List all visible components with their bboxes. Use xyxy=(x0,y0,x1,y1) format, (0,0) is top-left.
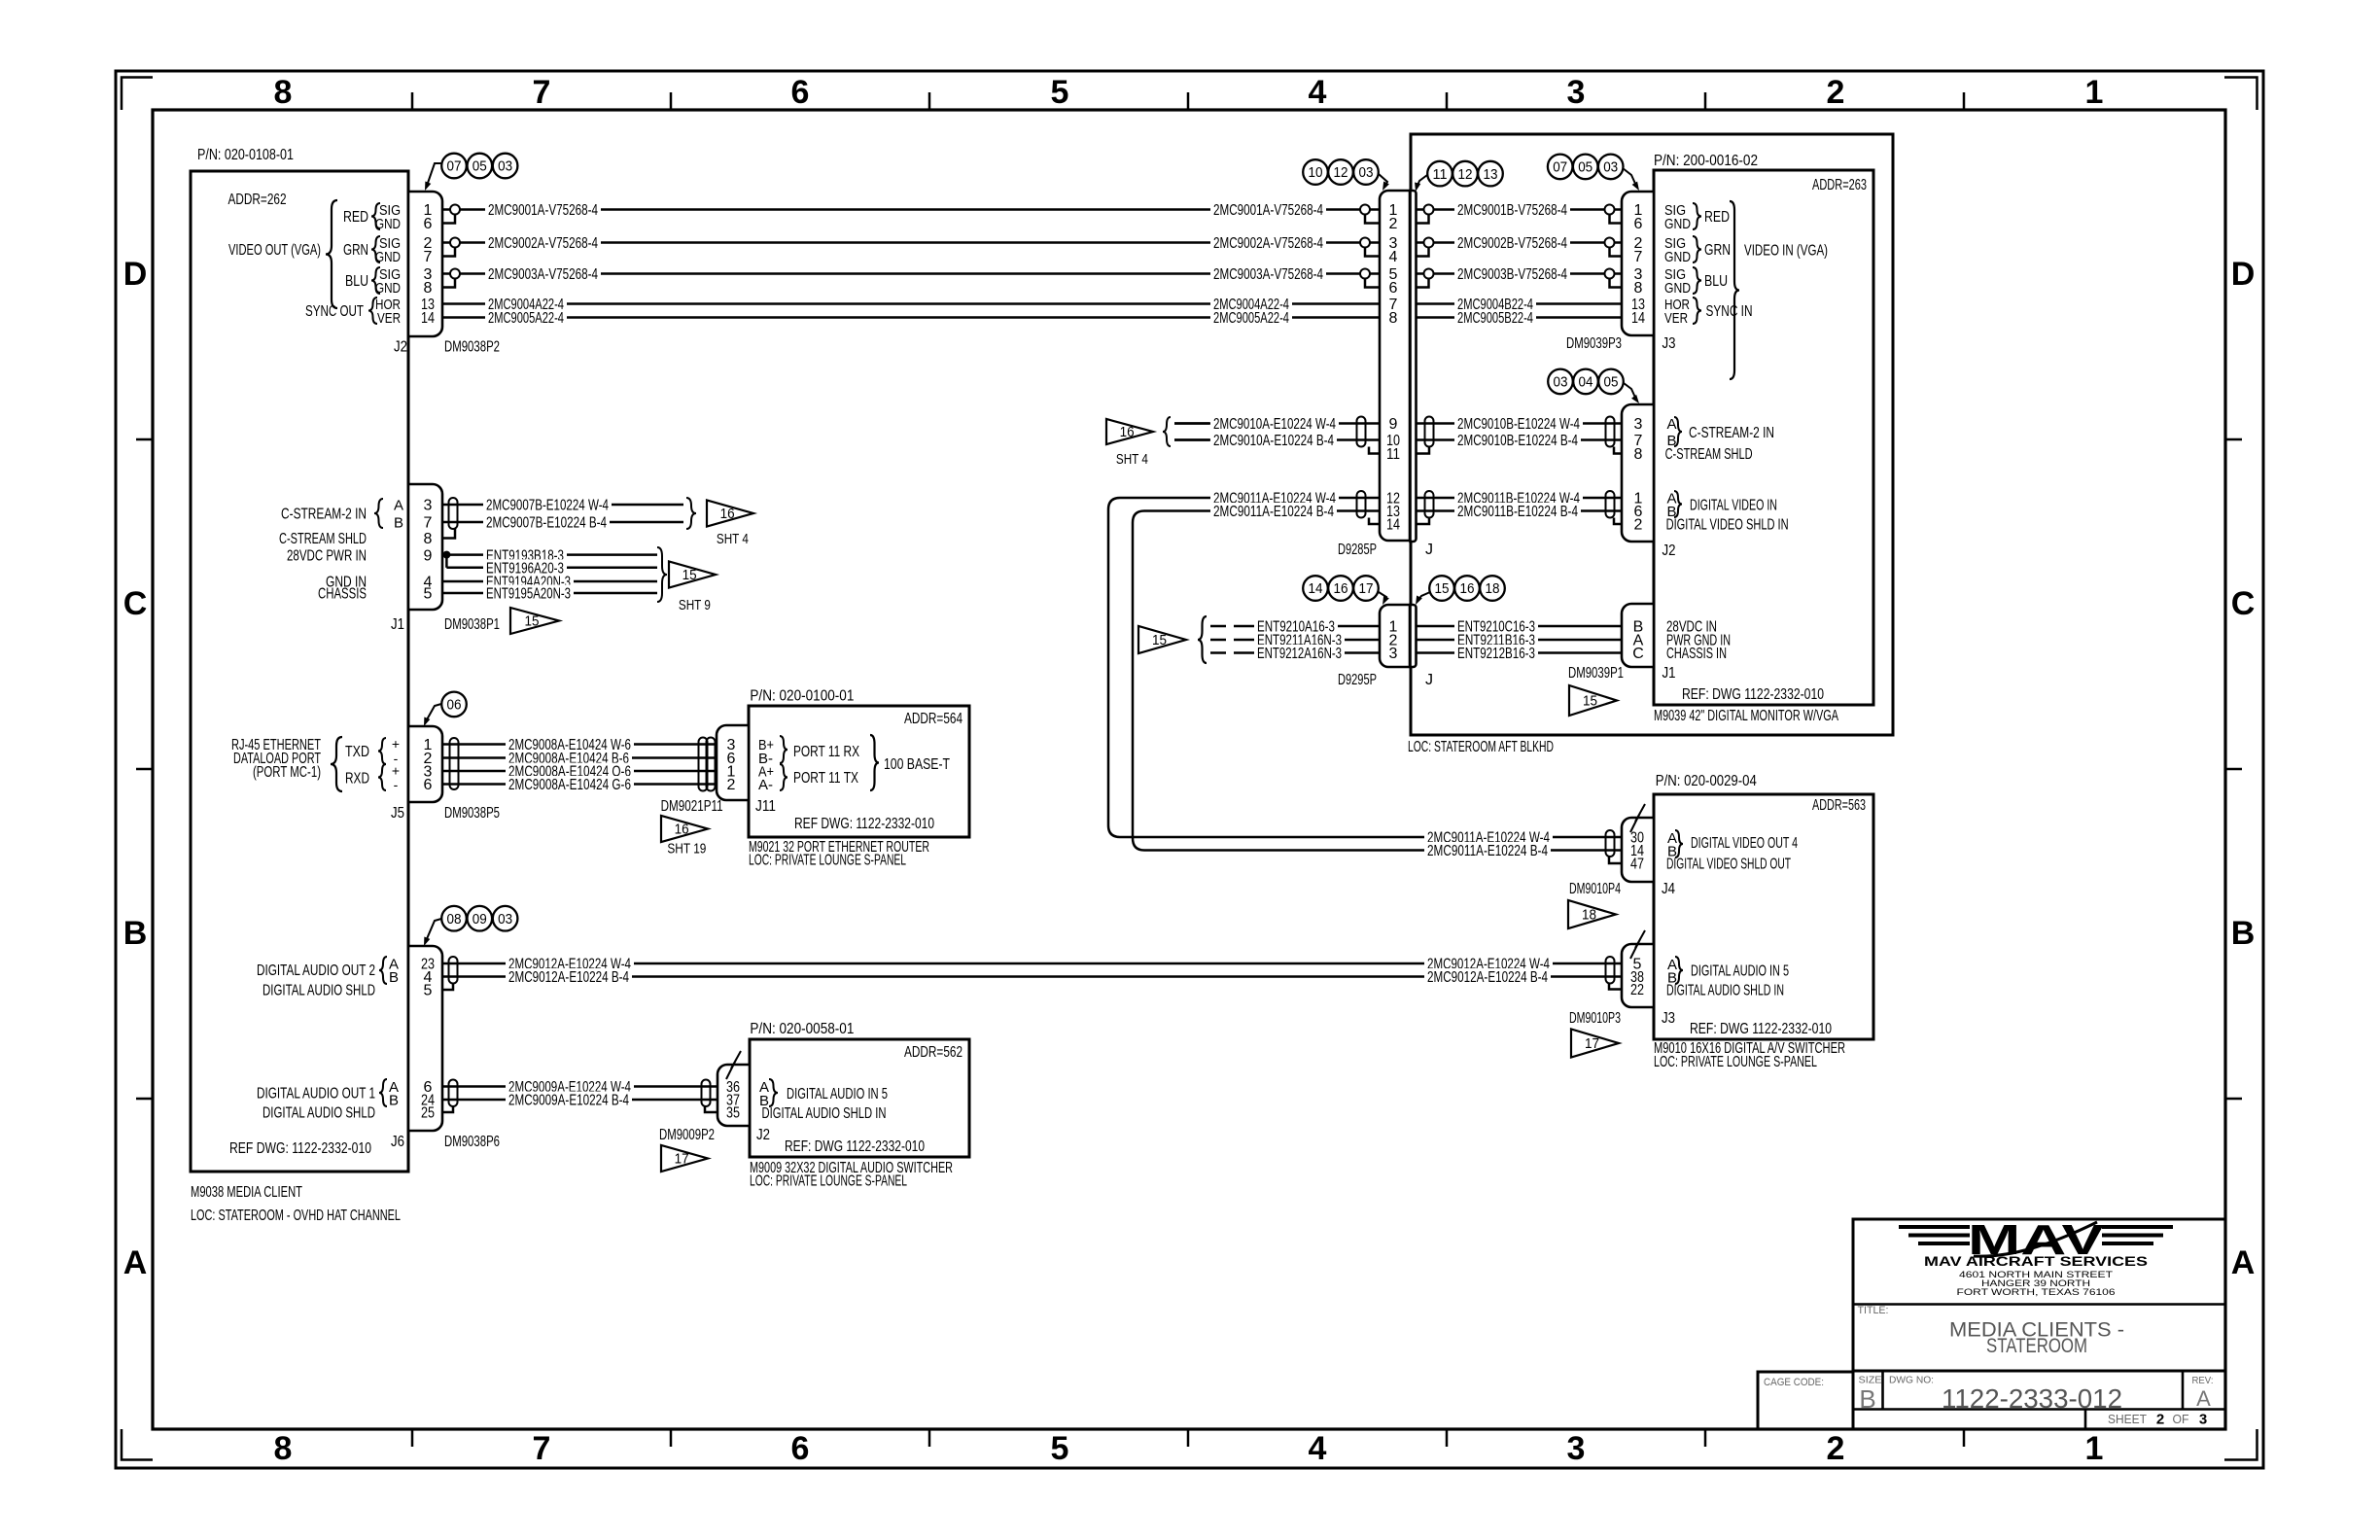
svg-text:J: J xyxy=(1425,542,1433,558)
svg-text:A: A xyxy=(2231,1244,2256,1281)
svg-text:ENT9212B16-3: ENT9212B16-3 xyxy=(1457,646,1535,662)
svg-text:C: C xyxy=(2231,585,2256,622)
svg-text:2MC9010A-E10224 W-4: 2MC9010A-E10224 W-4 xyxy=(1213,416,1336,433)
svg-text:14: 14 xyxy=(1309,581,1323,597)
svg-text:2MC9012A-E10224 B-4: 2MC9012A-E10224 B-4 xyxy=(1427,969,1548,986)
svg-text:J2: J2 xyxy=(1662,542,1676,559)
svg-text:M9038 MEDIA CLIENT: M9038 MEDIA CLIENT xyxy=(191,1184,302,1201)
svg-text:07: 07 xyxy=(447,159,462,175)
svg-text:28VDC PWR IN: 28VDC PWR IN xyxy=(287,547,367,564)
svg-text:DIGITAL VIDEO OUT 4: DIGITAL VIDEO OUT 4 xyxy=(1691,835,1798,852)
svg-text:A: A xyxy=(2196,1386,2211,1411)
svg-text:2MC9011A-E10224 B-4: 2MC9011A-E10224 B-4 xyxy=(1213,504,1334,520)
svg-text:6: 6 xyxy=(424,777,433,793)
svg-text:GND: GND xyxy=(375,280,401,297)
svg-text:VER: VER xyxy=(1664,310,1688,327)
svg-text:D9285P: D9285P xyxy=(1338,542,1377,558)
svg-text:04: 04 xyxy=(1579,375,1593,391)
svg-text:A: A xyxy=(394,498,403,514)
svg-text:7: 7 xyxy=(1634,249,1643,265)
svg-text:REF DWG: 1122-2332-010: REF DWG: 1122-2332-010 xyxy=(229,1140,371,1157)
svg-text:16: 16 xyxy=(1120,425,1135,440)
svg-text:RED: RED xyxy=(1704,209,1730,226)
svg-text:DIGITAL AUDIO SHLD IN: DIGITAL AUDIO SHLD IN xyxy=(1666,983,1784,999)
svg-text:2MC9012A-E10224 B-4: 2MC9012A-E10224 B-4 xyxy=(508,969,629,986)
svg-text:2: 2 xyxy=(1827,1430,1845,1467)
svg-text:14: 14 xyxy=(421,310,435,327)
svg-text:14: 14 xyxy=(1631,310,1645,327)
svg-text:PORT 11 RX: PORT 11 RX xyxy=(793,744,859,760)
svg-text:17: 17 xyxy=(1359,581,1374,597)
svg-text:CHASSIS: CHASSIS xyxy=(318,586,367,603)
svg-text:5: 5 xyxy=(424,586,433,603)
svg-text:DM9039P1: DM9039P1 xyxy=(1568,665,1624,682)
svg-text:4: 4 xyxy=(1389,249,1398,265)
svg-text:6: 6 xyxy=(1389,280,1398,297)
svg-text:15: 15 xyxy=(1152,633,1167,648)
svg-text:J4: J4 xyxy=(1662,881,1675,897)
svg-text:REF: DWG 1122-2332-010: REF: DWG 1122-2332-010 xyxy=(1682,686,1824,703)
svg-text:09: 09 xyxy=(472,912,487,927)
svg-text:P/N: 020-0058-01: P/N: 020-0058-01 xyxy=(750,1021,854,1037)
svg-text:4: 4 xyxy=(1309,74,1327,111)
svg-text:REV:: REV: xyxy=(2192,1375,2214,1386)
svg-text:7: 7 xyxy=(533,74,551,111)
svg-text:11: 11 xyxy=(1433,167,1448,183)
svg-text:J2: J2 xyxy=(756,1127,770,1143)
svg-text:16: 16 xyxy=(1334,581,1348,597)
svg-text:8: 8 xyxy=(1389,310,1398,327)
svg-text:DIGITAL VIDEO SHLD IN: DIGITAL VIDEO SHLD IN xyxy=(1666,517,1789,534)
svg-text:DIGITAL AUDIO SHLD IN: DIGITAL AUDIO SHLD IN xyxy=(762,1105,887,1122)
svg-text:3: 3 xyxy=(1567,1430,1586,1467)
svg-text:08: 08 xyxy=(447,912,462,927)
svg-text:2MC9011B-E10224 B-4: 2MC9011B-E10224 B-4 xyxy=(1457,504,1578,520)
svg-text:3: 3 xyxy=(1567,74,1586,111)
svg-text:3: 3 xyxy=(2199,1412,2207,1428)
svg-text:DM9009P2: DM9009P2 xyxy=(659,1127,715,1143)
svg-text:12: 12 xyxy=(1458,167,1473,183)
svg-text:15: 15 xyxy=(1435,581,1450,597)
svg-text:2: 2 xyxy=(1389,216,1398,232)
svg-text:STATEROOM: STATEROOM xyxy=(1986,1335,2087,1357)
svg-text:22: 22 xyxy=(1630,982,1644,998)
svg-text:REF DWG: 1122-2332-010: REF DWG: 1122-2332-010 xyxy=(794,816,934,832)
svg-text:RXD: RXD xyxy=(345,771,369,787)
svg-text:05: 05 xyxy=(1578,160,1592,176)
svg-text:D: D xyxy=(123,256,148,293)
svg-text:DM9038P2: DM9038P2 xyxy=(444,339,500,356)
svg-text:P/N: 020-0029-04: P/N: 020-0029-04 xyxy=(1656,773,1757,789)
svg-text:15: 15 xyxy=(682,568,697,583)
svg-text:C-STREAM-2 IN: C-STREAM-2 IN xyxy=(1689,425,1774,441)
svg-text:2MC9005A22-4: 2MC9005A22-4 xyxy=(488,310,564,327)
svg-text:6: 6 xyxy=(424,216,433,232)
svg-text:2MC9007B-E10224 W-4: 2MC9007B-E10224 W-4 xyxy=(486,498,609,514)
svg-text:5: 5 xyxy=(424,983,433,999)
svg-text:8: 8 xyxy=(1634,280,1643,297)
svg-text:DM9038P1: DM9038P1 xyxy=(444,616,500,633)
svg-text:SHT 4: SHT 4 xyxy=(1116,451,1148,468)
svg-text:2MC9003B-V75268-4: 2MC9003B-V75268-4 xyxy=(1457,266,1567,283)
svg-text:1: 1 xyxy=(2085,1430,2104,1467)
svg-text:C: C xyxy=(123,585,148,622)
svg-text:ADDR=564: ADDR=564 xyxy=(904,711,962,727)
svg-text:DM9010P4: DM9010P4 xyxy=(1569,881,1621,897)
svg-text:SYNC OUT: SYNC OUT xyxy=(305,303,364,320)
svg-text:ENT9195A20N-3: ENT9195A20N-3 xyxy=(486,586,571,603)
svg-text:M9039 42" DIGITAL MONITOR W/VG: M9039 42" DIGITAL MONITOR W/VGA xyxy=(1654,708,1838,724)
svg-text:2: 2 xyxy=(2156,1412,2164,1428)
svg-text:ENT9212A16N-3: ENT9212A16N-3 xyxy=(1257,646,1342,662)
svg-text:DM9038P5: DM9038P5 xyxy=(444,805,500,822)
svg-text:07: 07 xyxy=(1553,160,1567,176)
svg-text:3: 3 xyxy=(1634,416,1643,433)
svg-text:D: D xyxy=(2231,256,2256,293)
svg-text:J3: J3 xyxy=(1662,335,1676,352)
svg-text:J5: J5 xyxy=(391,805,404,822)
svg-text:ADDR=263: ADDR=263 xyxy=(1812,177,1867,193)
svg-text:03: 03 xyxy=(498,159,512,175)
svg-text:2MC9002B-V75268-4: 2MC9002B-V75268-4 xyxy=(1457,235,1567,252)
svg-text:C: C xyxy=(1632,646,1644,662)
svg-text:16: 16 xyxy=(720,507,735,522)
svg-text:DIGITAL AUDIO IN 5: DIGITAL AUDIO IN 5 xyxy=(787,1086,888,1102)
svg-text:J1: J1 xyxy=(391,616,404,633)
svg-text:2: 2 xyxy=(1634,517,1643,534)
svg-text:ADDR=562: ADDR=562 xyxy=(904,1044,962,1061)
svg-text:2MC9007B-E10224 B-4: 2MC9007B-E10224 B-4 xyxy=(486,515,607,532)
svg-text:VIDEO IN (VGA): VIDEO IN (VGA) xyxy=(1744,243,1828,260)
svg-text:FORT WORTH, TEXAS 76106: FORT WORTH, TEXAS 76106 xyxy=(1957,1287,2116,1297)
svg-text:A-: A- xyxy=(758,777,773,793)
svg-text:J6: J6 xyxy=(391,1134,404,1150)
svg-text:2MC9002A-V75268-4: 2MC9002A-V75268-4 xyxy=(488,235,598,252)
svg-text:15: 15 xyxy=(525,614,540,630)
svg-text:05: 05 xyxy=(1604,375,1619,391)
svg-text:CAGE CODE:: CAGE CODE: xyxy=(1764,1377,1824,1388)
svg-text:6: 6 xyxy=(791,74,810,111)
svg-text:J1: J1 xyxy=(1662,665,1676,682)
svg-text:DIGITAL VIDEO SHLD OUT: DIGITAL VIDEO SHLD OUT xyxy=(1666,857,1791,873)
svg-text:DIGITAL AUDIO SHLD: DIGITAL AUDIO SHLD xyxy=(262,1105,375,1122)
svg-text:DM9021P11: DM9021P11 xyxy=(661,798,723,815)
svg-text:RED: RED xyxy=(343,209,368,226)
svg-text:SHT 9: SHT 9 xyxy=(679,597,711,613)
svg-text:2MC9005A22-4: 2MC9005A22-4 xyxy=(1213,310,1289,327)
svg-text:B: B xyxy=(389,1093,399,1109)
svg-text:DIGITAL VIDEO IN: DIGITAL VIDEO IN xyxy=(1690,498,1777,514)
svg-text:1: 1 xyxy=(2085,74,2104,111)
svg-text:DM9039P3: DM9039P3 xyxy=(1566,335,1622,352)
svg-text:CHASSIS IN: CHASSIS IN xyxy=(1666,646,1727,662)
svg-text:6: 6 xyxy=(791,1430,810,1467)
svg-text:B: B xyxy=(394,515,403,532)
svg-text:17: 17 xyxy=(675,1152,689,1168)
svg-text:DIGITAL AUDIO OUT 1: DIGITAL AUDIO OUT 1 xyxy=(257,1086,375,1102)
svg-text:P/N: 200-0016-02: P/N: 200-0016-02 xyxy=(1654,153,1758,169)
svg-text:7: 7 xyxy=(533,1430,551,1467)
svg-text:REF: DWG 1122-2332-010: REF: DWG 1122-2332-010 xyxy=(785,1138,925,1155)
svg-text:DIGITAL AUDIO OUT 2: DIGITAL AUDIO OUT 2 xyxy=(257,962,375,979)
svg-text:3: 3 xyxy=(1389,646,1398,662)
svg-text:C-STREAM SHLD: C-STREAM SHLD xyxy=(279,531,367,547)
svg-text:03: 03 xyxy=(498,912,512,927)
svg-text:17: 17 xyxy=(1585,1036,1599,1052)
svg-text:-: - xyxy=(394,777,399,792)
svg-text:2MC9002A-V75268-4: 2MC9002A-V75268-4 xyxy=(1213,235,1323,252)
svg-text:6: 6 xyxy=(1634,216,1643,232)
svg-text:9: 9 xyxy=(424,547,433,564)
svg-text:2: 2 xyxy=(1827,74,1845,111)
svg-text:3: 3 xyxy=(424,498,433,514)
svg-text:J2: J2 xyxy=(394,339,407,356)
svg-text:10: 10 xyxy=(1309,165,1323,181)
svg-text:100 BASE-T: 100 BASE-T xyxy=(884,756,950,773)
svg-text:J: J xyxy=(1425,672,1433,688)
svg-text:B: B xyxy=(2231,915,2256,952)
svg-text:SYNC IN: SYNC IN xyxy=(1706,303,1753,320)
svg-text:DM9010P3: DM9010P3 xyxy=(1569,1010,1621,1027)
svg-text:VER: VER xyxy=(377,310,401,327)
svg-text:SHEET: SHEET xyxy=(2108,1412,2147,1426)
svg-text:1122-2333-012: 1122-2333-012 xyxy=(1942,1383,2122,1414)
svg-text:ADDR=262: ADDR=262 xyxy=(228,192,287,208)
svg-text:2MC9001B-V75268-4: 2MC9001B-V75268-4 xyxy=(1457,202,1567,219)
svg-text:TXD: TXD xyxy=(345,744,369,760)
svg-text:03: 03 xyxy=(1359,165,1374,181)
svg-text:B: B xyxy=(123,915,148,952)
svg-text:GRN: GRN xyxy=(1704,242,1731,259)
svg-text:35: 35 xyxy=(726,1105,740,1122)
svg-text:16: 16 xyxy=(1460,581,1475,597)
svg-text:2MC9001A-V75268-4: 2MC9001A-V75268-4 xyxy=(1213,202,1323,219)
svg-text:9: 9 xyxy=(1389,416,1398,433)
svg-text:8: 8 xyxy=(274,74,293,111)
svg-text:25: 25 xyxy=(421,1105,435,1122)
svg-text:11: 11 xyxy=(1386,446,1400,463)
svg-text:2MC9001A-V75268-4: 2MC9001A-V75268-4 xyxy=(488,202,598,219)
svg-text:06: 06 xyxy=(447,698,462,714)
svg-text:7: 7 xyxy=(424,249,433,265)
svg-text:TITLE:: TITLE: xyxy=(1858,1305,1889,1316)
svg-text:03: 03 xyxy=(1554,375,1568,391)
svg-text:C-STREAM SHLD: C-STREAM SHLD xyxy=(1665,446,1753,463)
svg-text:GRN: GRN xyxy=(343,242,368,259)
svg-text:2MC9003A-V75268-4: 2MC9003A-V75268-4 xyxy=(488,266,598,283)
svg-text:B: B xyxy=(1859,1384,1875,1414)
svg-text:2MC9003A-V75268-4: 2MC9003A-V75268-4 xyxy=(1213,266,1323,283)
svg-text:SHT 4: SHT 4 xyxy=(717,531,749,547)
svg-text:A: A xyxy=(123,1244,148,1281)
svg-text:LOC: PRIVATE LOUNGE S-PANEL: LOC: PRIVATE LOUNGE S-PANEL xyxy=(749,853,906,869)
svg-text:7: 7 xyxy=(424,515,433,532)
svg-text:+: + xyxy=(392,736,400,752)
svg-text:LOC: STATEROOM AFT BLKHD: LOC: STATEROOM AFT BLKHD xyxy=(1408,739,1554,755)
svg-text:P/N: 020-0108-01: P/N: 020-0108-01 xyxy=(197,147,294,163)
svg-text:J11: J11 xyxy=(755,798,776,815)
svg-text:MAV AIRCRAFT SERVICES: MAV AIRCRAFT SERVICES xyxy=(1924,1254,2148,1269)
svg-text:P/N: 020-0100-01: P/N: 020-0100-01 xyxy=(750,687,854,704)
svg-text:2: 2 xyxy=(727,777,736,793)
svg-text:GND: GND xyxy=(375,249,401,265)
svg-text:2MC9009A-E10224 B-4: 2MC9009A-E10224 B-4 xyxy=(508,1093,629,1109)
svg-text:05: 05 xyxy=(472,159,487,175)
svg-text:GND: GND xyxy=(1664,280,1691,297)
svg-text:15: 15 xyxy=(1583,694,1597,710)
svg-text:8: 8 xyxy=(424,531,433,547)
svg-text:(PORT MC-1): (PORT MC-1) xyxy=(253,764,321,781)
svg-text:BLU: BLU xyxy=(345,273,368,290)
svg-text:2MC9010B-E10224 B-4: 2MC9010B-E10224 B-4 xyxy=(1457,433,1578,449)
svg-text:A: A xyxy=(1667,416,1677,433)
svg-text:B: B xyxy=(389,969,399,986)
svg-text:12: 12 xyxy=(1334,165,1348,181)
svg-text:LOC: PRIVATE LOUNGE S-PANEL: LOC: PRIVATE LOUNGE S-PANEL xyxy=(1654,1054,1817,1070)
svg-text:13: 13 xyxy=(1484,167,1498,183)
svg-text:DIGITAL AUDIO IN 5: DIGITAL AUDIO IN 5 xyxy=(1691,963,1789,980)
svg-text:PORT 11 TX: PORT 11 TX xyxy=(793,770,858,787)
svg-text:C-STREAM-2 IN: C-STREAM-2 IN xyxy=(281,507,367,523)
svg-text:LOC: STATEROOM - OVHD HAT CHAN: LOC: STATEROOM - OVHD HAT CHANNEL xyxy=(191,1207,401,1224)
svg-text:VIDEO OUT (VGA): VIDEO OUT (VGA) xyxy=(228,242,321,259)
svg-text:J3: J3 xyxy=(1662,1010,1675,1027)
svg-text:2MC9011A-E10224 B-4: 2MC9011A-E10224 B-4 xyxy=(1427,843,1548,859)
svg-text:5: 5 xyxy=(1051,74,1069,111)
svg-text:18: 18 xyxy=(1486,581,1500,597)
svg-text:SHT 19: SHT 19 xyxy=(667,841,706,857)
svg-text:DIGITAL AUDIO SHLD: DIGITAL AUDIO SHLD xyxy=(262,983,375,999)
svg-text:GND: GND xyxy=(1664,216,1691,232)
svg-text:D9295P: D9295P xyxy=(1338,672,1377,688)
svg-text:5: 5 xyxy=(1051,1430,1069,1467)
svg-text:2MC9010B-E10224 W-4: 2MC9010B-E10224 W-4 xyxy=(1457,416,1580,433)
svg-text:8: 8 xyxy=(274,1430,293,1467)
svg-text:LOC: PRIVATE LOUNGE S-PANEL: LOC: PRIVATE LOUNGE S-PANEL xyxy=(750,1173,907,1190)
svg-text:2MC9010A-E10224 B-4: 2MC9010A-E10224 B-4 xyxy=(1213,433,1334,449)
svg-text:03: 03 xyxy=(1603,160,1618,176)
svg-text:DM9038P6: DM9038P6 xyxy=(444,1134,500,1150)
svg-text:BLU: BLU xyxy=(1704,273,1728,290)
svg-text:ADDR=563: ADDR=563 xyxy=(1812,797,1866,814)
svg-text:8: 8 xyxy=(424,280,433,297)
svg-text:GND: GND xyxy=(1664,249,1691,265)
svg-text:8: 8 xyxy=(1634,446,1643,463)
svg-text:2MC9008A-E10424 G-6: 2MC9008A-E10424 G-6 xyxy=(508,777,631,793)
svg-text:47: 47 xyxy=(1630,857,1644,873)
svg-text:OF: OF xyxy=(2173,1412,2189,1426)
svg-text:DWG NO:: DWG NO: xyxy=(1889,1375,1934,1386)
svg-text:4: 4 xyxy=(1309,1430,1327,1467)
svg-text:18: 18 xyxy=(1582,908,1596,924)
svg-text:14: 14 xyxy=(1386,517,1400,534)
svg-text:REF: DWG 1122-2332-010: REF: DWG 1122-2332-010 xyxy=(1690,1021,1832,1037)
svg-text:GND: GND xyxy=(375,216,401,232)
svg-text:16: 16 xyxy=(675,822,689,838)
svg-text:2MC9005B22-4: 2MC9005B22-4 xyxy=(1457,310,1533,327)
